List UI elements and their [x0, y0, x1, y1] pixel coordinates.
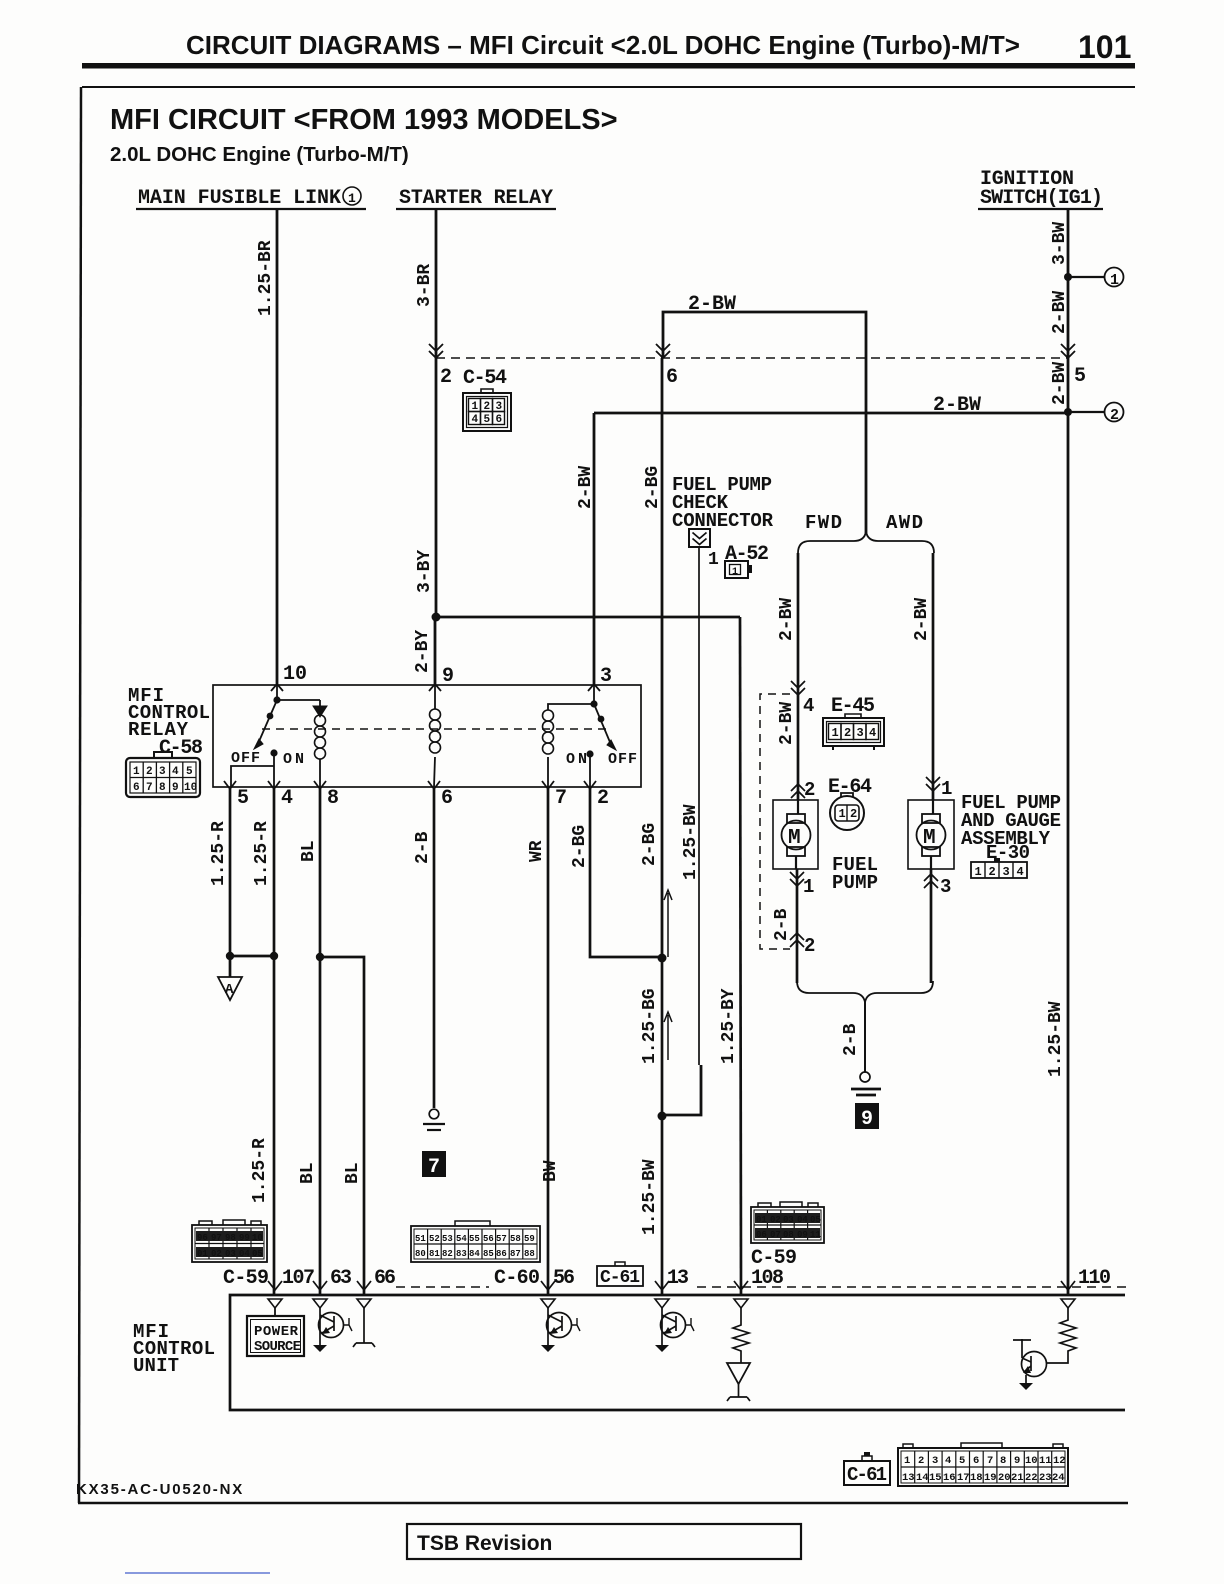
pin 66 entry bar: [357, 1299, 371, 1308]
svg-text:2-BW: 2-BW: [933, 394, 981, 417]
svg-text:BW: BW: [541, 1160, 561, 1182]
wire relay pin6 down to ground: [433, 789, 436, 1108]
svg-text:2-BW: 2-BW: [576, 466, 596, 509]
svg-text:05: 05: [252, 1249, 263, 1259]
svg-text:1: 1: [732, 567, 738, 578]
svg-text:CIRCUIT DIAGRAMS – MFI Circuit: CIRCUIT DIAGRAMS – MFI Circuit <2.0L DOH…: [186, 30, 1020, 60]
svg-text:4: 4: [869, 726, 876, 740]
svg-text:1.25-BW: 1.25-BW: [681, 804, 701, 880]
svg-text:3: 3: [600, 665, 612, 688]
transistor pin 56: [547, 1308, 581, 1345]
brace bottom: [797, 981, 933, 1002]
svg-text:M: M: [923, 827, 936, 850]
wire: ignition switch down to pin 110: [1067, 209, 1070, 1295]
svg-text:10: 10: [184, 782, 197, 794]
transistor pin 63: [319, 1308, 353, 1345]
svg-text:AWD: AWD: [886, 512, 923, 534]
connector A-52 icon: [725, 561, 752, 578]
fuel pump check connector symbol: [689, 529, 710, 547]
svg-text:3: 3: [496, 401, 503, 413]
svg-text:C-59: C-59: [223, 1267, 269, 1290]
svg-text:3: 3: [932, 1455, 938, 1467]
svg-text:BL: BL: [298, 1162, 318, 1184]
resistor pin 110: [1046, 1308, 1076, 1363]
flow arrow up 2: [664, 1012, 672, 1060]
svg-text:03: 03: [783, 1215, 794, 1225]
svg-text:82: 82: [442, 1249, 453, 1259]
wire AWD branch: [932, 553, 935, 800]
connector E-64 icon: [830, 793, 864, 830]
connector label C-61 boxed: [597, 1262, 643, 1288]
fuel pump AWD motor: [917, 800, 946, 869]
diagram frame top edge: [82, 86, 1135, 88]
fuel pump AWD box: [908, 800, 954, 869]
svg-text:4: 4: [281, 787, 293, 810]
relay internal: left coil: [319, 700, 321, 787]
svg-text:14: 14: [916, 1472, 929, 1484]
svg-text:56: 56: [553, 1267, 575, 1290]
transistor pin 110: [1013, 1339, 1047, 1383]
svg-text:8: 8: [1000, 1455, 1006, 1467]
svg-text:83: 83: [456, 1249, 467, 1259]
relay pin 10 arrow: [271, 684, 283, 691]
svg-text:04: 04: [239, 1249, 250, 1259]
node: ignition tap 2: [1064, 408, 1072, 416]
svg-text:3: 3: [940, 876, 951, 898]
svg-text:4: 4: [472, 414, 479, 426]
pin 13 entry triangle: [655, 1299, 669, 1308]
diagram frame bottom edge: [78, 1502, 1128, 1505]
svg-text:1: 1: [803, 876, 814, 898]
svg-text:1: 1: [348, 191, 356, 206]
svg-text:STARTER RELAY: STARTER RELAY: [399, 187, 553, 210]
wire relay pin4 down to MFI 107: [273, 789, 276, 1295]
svg-text:2: 2: [146, 766, 153, 778]
svg-text:POWER: POWER: [254, 1324, 299, 1340]
ground symbol starter circuit: [423, 1109, 445, 1130]
svg-text:C-61: C-61: [847, 1464, 887, 1486]
svg-text:2: 2: [804, 779, 815, 801]
svg-text:2-BW: 2-BW: [777, 702, 797, 745]
svg-text:9: 9: [442, 665, 454, 688]
svg-text:BL: BL: [299, 840, 319, 862]
pin 63 entry triangle: [313, 1299, 327, 1308]
svg-text:63: 63: [330, 1267, 352, 1290]
svg-text:20: 20: [998, 1472, 1011, 1484]
svg-text:99: 99: [239, 1233, 250, 1243]
svg-text:02: 02: [770, 1215, 781, 1225]
svg-text:2: 2: [484, 401, 491, 413]
svg-text:8: 8: [327, 787, 339, 810]
svg-text:8: 8: [159, 782, 166, 794]
arrow out pump pin 1: [790, 872, 804, 886]
svg-text:OFF: OFF: [231, 750, 260, 767]
node junction 1.25-BW: [658, 1112, 667, 1121]
svg-text:06: 06: [756, 1230, 767, 1240]
svg-text:CONNECTOR: CONNECTOR: [672, 510, 774, 532]
svg-text:4: 4: [172, 766, 179, 778]
fuel pump AWD assembly labels: [961, 792, 1061, 864]
svg-text:9: 9: [861, 1108, 873, 1131]
circled terminal 2: [1105, 403, 1124, 422]
svg-text:7: 7: [555, 787, 567, 810]
relay pin 9 arrow: [429, 684, 441, 691]
node pin8 branch: [316, 953, 324, 961]
svg-text:03: 03: [225, 1249, 236, 1259]
MFI control relay label: [128, 685, 210, 760]
svg-text:C-61: C-61: [600, 1268, 640, 1288]
svg-text:2: 2: [850, 807, 857, 821]
svg-text:24: 24: [1052, 1472, 1065, 1484]
blue scan mark: [125, 1572, 270, 1574]
svg-text:M: M: [788, 827, 801, 850]
svg-text:1: 1: [839, 807, 846, 821]
svg-text:SWITCH(IG1): SWITCH(IG1): [980, 187, 1103, 210]
fuel pump FWD box: [773, 800, 818, 869]
svg-text:2-BG: 2-BG: [640, 823, 660, 866]
connector C-59 left icon: [192, 1220, 267, 1262]
svg-text:C-58: C-58: [159, 737, 203, 760]
svg-text:88: 88: [524, 1249, 535, 1259]
svg-text:5: 5: [1074, 365, 1086, 388]
svg-text:2: 2: [597, 787, 609, 810]
svg-text:52: 52: [429, 1234, 440, 1244]
svg-text:1: 1: [1110, 272, 1119, 289]
svg-text:BL: BL: [343, 1162, 363, 1184]
svg-text:1: 1: [472, 401, 479, 413]
svg-text:2-BW: 2-BW: [1050, 291, 1070, 334]
svg-text:10: 10: [283, 663, 307, 686]
svg-text:101: 101: [1078, 29, 1131, 65]
svg-text:7: 7: [987, 1455, 993, 1467]
svg-text:9: 9: [1014, 1455, 1020, 1467]
svg-text:81: 81: [429, 1249, 440, 1259]
svg-text:13: 13: [667, 1267, 689, 1290]
svg-text:54: 54: [456, 1234, 467, 1244]
svg-text:59: 59: [524, 1234, 535, 1244]
connector E-45 icon: [823, 714, 884, 750]
svg-text:1: 1: [941, 778, 952, 800]
svg-text:MFI CIRCUIT <FROM 1993 MODELS>: MFI CIRCUIT <FROM 1993 MODELS>: [110, 104, 618, 136]
MFI control unit box: [230, 1295, 1125, 1410]
svg-text:2-BG: 2-BG: [570, 825, 590, 868]
arrow into pump pin 2: [791, 784, 805, 798]
pin 56 entry triangle: [541, 1299, 555, 1308]
svg-text:5: 5: [186, 766, 193, 778]
svg-text:1: 1: [904, 1455, 910, 1467]
svg-text:2-BW: 2-BW: [688, 293, 736, 316]
svg-text:22: 22: [1025, 1472, 1038, 1484]
relay pin 2 arrow: [584, 781, 596, 789]
svg-text:1.25-BG: 1.25-BG: [640, 988, 660, 1064]
svg-text:A: A: [225, 982, 234, 998]
svg-text:18: 18: [970, 1472, 983, 1484]
svg-text:UNIT: UNIT: [133, 1355, 179, 1377]
svg-text:3: 3: [1003, 865, 1010, 879]
node junction starter y617: [432, 613, 441, 622]
wire pump common ground: [864, 1002, 866, 1072]
resistor pin 108: [733, 1308, 749, 1363]
svg-text:C-54: C-54: [463, 367, 507, 390]
connector C-59 right icon: [751, 1202, 824, 1243]
svg-text:3-BR: 3-BR: [415, 264, 435, 307]
svg-text:1.25-BR: 1.25-BR: [256, 240, 276, 316]
header rule bar: [82, 63, 1135, 69]
svg-text:108: 108: [751, 1267, 784, 1290]
svg-text:2-BW: 2-BW: [912, 598, 932, 641]
svg-text:16: 16: [943, 1472, 956, 1484]
starter relay label: [396, 187, 556, 210]
wire pump FWD lower: [796, 869, 799, 983]
relay internal: right switch: [590, 700, 597, 707]
wire 1.25-BG down to node: [661, 958, 664, 1295]
svg-text:7: 7: [146, 782, 153, 794]
svg-text:5: 5: [484, 414, 491, 426]
connector C-60 icon: [411, 1221, 540, 1262]
arrow into C-54 pin 2: [429, 344, 443, 358]
svg-text:84: 84: [469, 1249, 480, 1259]
ground symbol fuel pump: [851, 1072, 881, 1095]
connector C-58 icon: [126, 752, 200, 797]
svg-text:4: 4: [1017, 865, 1024, 879]
svg-text:2: 2: [804, 935, 815, 957]
pin 108 entry triangle: [734, 1299, 748, 1308]
arrow into C-54 pin 6: [656, 344, 670, 358]
svg-text:3-BW: 3-BW: [1050, 222, 1070, 265]
wire 2-BW top horizontal: [663, 312, 866, 534]
connector C-54 icon: [463, 389, 511, 431]
connector plane dashed line MFI: [396, 1286, 1127, 1288]
svg-text:55: 55: [469, 1234, 480, 1244]
svg-text:96: 96: [197, 1233, 208, 1243]
svg-text:98: 98: [225, 1233, 236, 1243]
brace top: [798, 532, 934, 553]
svg-text:1.25-R: 1.25-R: [252, 821, 272, 886]
svg-text:1.25-R: 1.25-R: [250, 1138, 270, 1203]
connector E-30 icon: [971, 858, 1027, 878]
wire: C-54 pin6 down 2-BG: [661, 358, 664, 958]
relay pin 5 arrow: [224, 781, 236, 789]
svg-text:4: 4: [945, 1455, 951, 1467]
svg-text:2-BW: 2-BW: [777, 598, 797, 641]
svg-text:13: 13: [902, 1472, 915, 1484]
svg-text:7: 7: [428, 1156, 440, 1179]
relay internal: middle coil: [434, 685, 435, 787]
svg-text:23: 23: [1039, 1472, 1052, 1484]
svg-text:2-B: 2-B: [413, 831, 433, 864]
svg-text:66: 66: [374, 1267, 396, 1290]
svg-text:58: 58: [510, 1234, 521, 1244]
svg-text:2-B: 2-B: [772, 908, 792, 941]
relay box C-58: [213, 685, 641, 787]
ground ref box 9: [855, 1103, 879, 1129]
power source box: [247, 1316, 304, 1356]
svg-text:FWD: FWD: [805, 512, 842, 534]
svg-text:01: 01: [197, 1249, 208, 1259]
relay internal: right coil: [548, 685, 594, 787]
svg-text:85: 85: [483, 1249, 494, 1259]
svg-text:1.25-BW: 1.25-BW: [1046, 1001, 1066, 1077]
svg-text:56: 56: [483, 1234, 494, 1244]
svg-text:07: 07: [770, 1230, 781, 1240]
wire relay pin8 down to MFI 63: [319, 789, 322, 1295]
node pin5/pin4 tie: [226, 952, 234, 960]
svg-text:1: 1: [133, 766, 140, 778]
wire: check connector thick lower segment: [662, 1065, 701, 1115]
arrow pump pin 2 lower: [790, 933, 804, 947]
svg-text:10: 10: [252, 1233, 263, 1243]
relay internal: mechanical dashed link: [262, 728, 610, 730]
svg-text:04: 04: [797, 1215, 808, 1225]
svg-text:C-60: C-60: [494, 1267, 540, 1290]
arrow into awd pin 1: [926, 777, 940, 791]
svg-text:SOURCE: SOURCE: [254, 1339, 301, 1355]
svg-text:21: 21: [1011, 1472, 1024, 1484]
svg-text:53: 53: [442, 1234, 453, 1244]
relay pin 7 arrow: [542, 781, 554, 789]
svg-text:11: 11: [1039, 1455, 1052, 1467]
svg-text:5: 5: [959, 1455, 965, 1467]
svg-text:OFF: OFF: [608, 751, 637, 768]
wire 2-BW mid horizontal: [594, 412, 1068, 415]
pin arrows at MFI boundary: [268, 1281, 282, 1290]
svg-text:80: 80: [415, 1249, 426, 1259]
svg-text:3: 3: [857, 726, 864, 740]
svg-text:2: 2: [440, 366, 452, 389]
svg-text:1: 1: [708, 550, 719, 570]
svg-text:E-30: E-30: [986, 842, 1030, 864]
svg-text:2: 2: [918, 1455, 924, 1467]
ground ref box 7: [422, 1151, 446, 1177]
TSB revision box: [407, 1524, 801, 1559]
wire 1.25-BY vertical: [740, 617, 741, 1295]
svg-text:86: 86: [496, 1249, 507, 1259]
svg-text:110: 110: [1078, 1267, 1111, 1290]
wire relay pin7 down to MFI 56: [547, 789, 550, 1295]
arrow out awd pin 3: [924, 874, 938, 888]
relay pin 8 arrow: [314, 781, 326, 789]
wire junction y617 horizontal: [436, 616, 740, 619]
svg-text:2-BG: 2-BG: [643, 466, 663, 509]
relay pin 3 arrow: [588, 684, 600, 691]
svg-text:2.0L DOHC Engine (Turbo-M/T): 2.0L DOHC Engine (Turbo-M/T): [110, 143, 409, 166]
svg-text:2: 2: [1110, 407, 1119, 424]
svg-text:2-BY: 2-BY: [413, 630, 433, 673]
FUEL PUMP label: [832, 854, 878, 894]
svg-text:15: 15: [929, 1472, 942, 1484]
node: ignition tap 1: [1064, 273, 1072, 281]
svg-text:2-BW: 2-BW: [1050, 362, 1070, 405]
svg-text:10: 10: [1025, 1455, 1038, 1467]
ignition switch label: [978, 168, 1103, 210]
svg-text:6: 6: [666, 366, 678, 389]
svg-text:2: 2: [844, 726, 851, 740]
dashed option bracket E-45: [760, 694, 790, 949]
connector plane dashed line C-54: [436, 357, 1068, 359]
svg-text:9: 9: [172, 782, 179, 794]
MFI control unit label: [133, 1321, 215, 1377]
relay internal: left switch: [257, 685, 320, 746]
svg-text:97: 97: [211, 1233, 222, 1243]
arrow into C-54 pin 5: [1061, 344, 1075, 358]
svg-text:11: 11: [810, 1230, 821, 1240]
wire: main fusible link to relay pin 10: [276, 209, 279, 684]
svg-text:TSB Revision: TSB Revision: [417, 1532, 552, 1555]
svg-text:107: 107: [282, 1267, 315, 1290]
wire: check connector down: [698, 547, 700, 1065]
svg-text:PUMP: PUMP: [832, 872, 878, 894]
svg-text:WR: WR: [527, 840, 547, 862]
svg-text:4: 4: [803, 695, 814, 717]
svg-text:3-BY: 3-BY: [415, 550, 435, 593]
wire: starter relay down to relay pin 9: [435, 209, 438, 617]
svg-text:57: 57: [496, 1234, 507, 1244]
svg-text:1.25-BY: 1.25-BY: [719, 988, 739, 1064]
svg-text:12: 12: [1053, 1455, 1066, 1467]
svg-text:01: 01: [756, 1215, 767, 1225]
wire FWD branch upper: [797, 553, 800, 800]
svg-text:09: 09: [797, 1230, 808, 1240]
transistor pin 13: [661, 1308, 695, 1345]
svg-text:17: 17: [957, 1472, 970, 1484]
svg-text:1: 1: [832, 726, 839, 740]
svg-text:19: 19: [984, 1472, 997, 1484]
main fusible link label: [136, 187, 366, 210]
svg-text:2-B: 2-B: [841, 1023, 861, 1056]
svg-text:1: 1: [975, 865, 982, 879]
svg-text:6: 6: [441, 787, 453, 810]
svg-text:6: 6: [133, 782, 140, 794]
ground ref triangle A: [218, 977, 242, 1000]
svg-text:1.25-BW: 1.25-BW: [640, 1159, 660, 1235]
svg-text:3: 3: [159, 766, 166, 778]
arrow into E-45 pin 4: [791, 681, 805, 695]
fuel pump check connector label: [672, 474, 774, 532]
circled terminal 1: [1105, 268, 1124, 287]
connector label C-61 bottom boxed: [844, 1452, 890, 1486]
pin 107 entry triangle: [268, 1299, 282, 1308]
wire pump AWD lower: [930, 869, 933, 983]
relay pin 6 arrow: [428, 781, 440, 789]
svg-text:6: 6: [496, 414, 503, 426]
wire branch to MFI 66: [320, 957, 364, 1295]
svg-text:05: 05: [810, 1215, 821, 1225]
svg-text:02: 02: [211, 1249, 222, 1259]
svg-text:KX35-AC-U0520-NX: KX35-AC-U0520-NX: [76, 1481, 244, 1498]
relay pin 4 arrow: [268, 781, 280, 789]
wire: down to relay pin 3: [593, 413, 596, 684]
wire relay pin5 down: [229, 789, 232, 977]
pin 110 entry triangle: [1061, 1299, 1075, 1308]
fuel pump FWD motor: [782, 800, 811, 869]
svg-text:51: 51: [415, 1234, 426, 1244]
connector C-61 icon: [898, 1443, 1068, 1486]
svg-text:08: 08: [783, 1230, 794, 1240]
svg-text:MAIN FUSIBLE LINK: MAIN FUSIBLE LINK: [138, 187, 341, 210]
svg-text:2: 2: [989, 865, 996, 879]
svg-text:87: 87: [510, 1249, 521, 1259]
node junction 2-BG/2-B: [658, 954, 667, 963]
diagram frame left edge: [79, 87, 81, 1503]
svg-text:5: 5: [237, 787, 249, 810]
relay internal: left diode: [313, 706, 327, 717]
wire relay pin2 down and across: [590, 789, 662, 957]
diode triangle pin 108: [727, 1363, 750, 1384]
svg-text:1.25-R: 1.25-R: [209, 821, 229, 886]
svg-text:6: 6: [973, 1455, 979, 1467]
flow arrow up 1: [664, 890, 672, 957]
